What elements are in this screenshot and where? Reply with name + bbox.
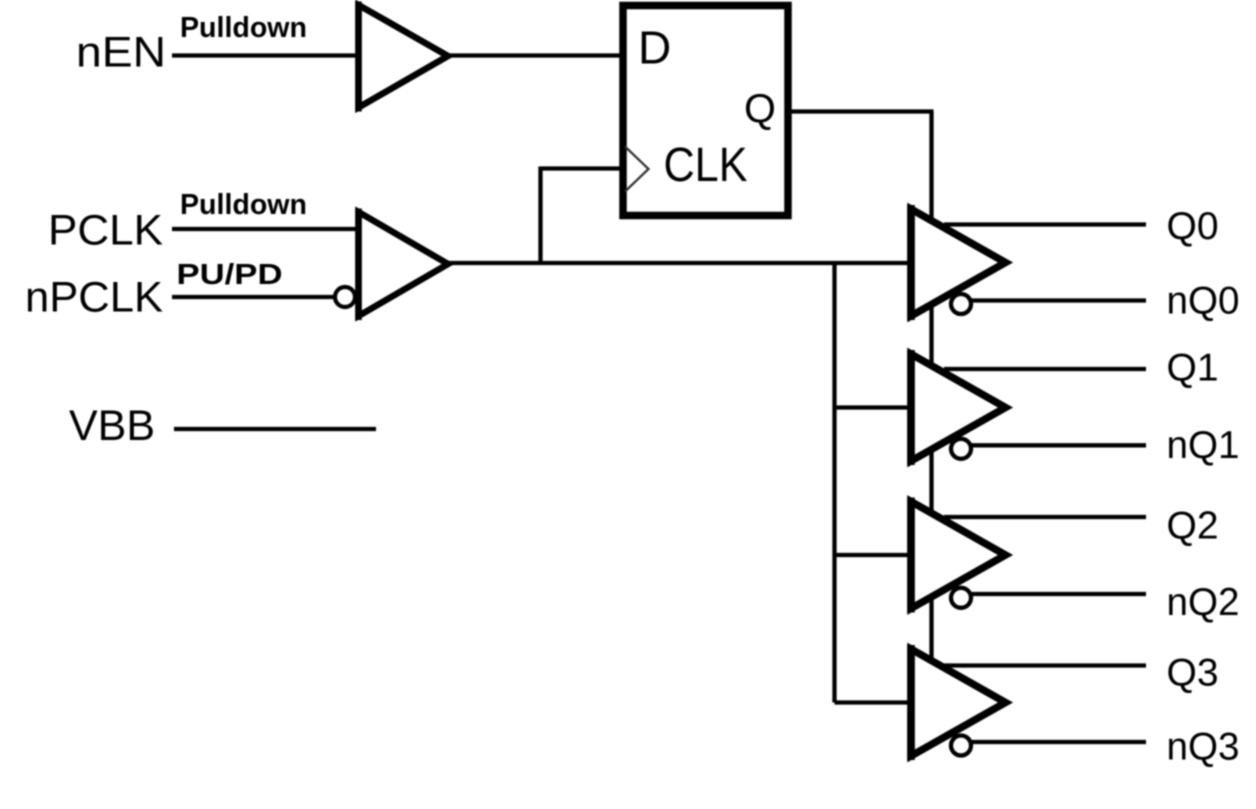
svg-text:Pulldown: Pulldown bbox=[180, 12, 307, 44]
svg-text:Q1: Q1 bbox=[1167, 347, 1219, 390]
clock edge chevron bbox=[625, 147, 649, 192]
buffer U2 left edge bbox=[355, 209, 362, 321]
wire CLK branch horizontal bbox=[541, 166, 624, 170]
svg-text:Q: Q bbox=[744, 86, 776, 132]
svg-text:nPCLK: nPCLK bbox=[25, 274, 163, 322]
wire nQ3 bbox=[962, 740, 1146, 744]
svg-text:nEN: nEN bbox=[76, 29, 166, 77]
wire nEN input bbox=[172, 53, 356, 57]
svg-text:PU/PD: PU/PD bbox=[177, 259, 283, 291]
output buffer B1 bbox=[911, 209, 1006, 316]
output buffer B3 bbox=[911, 502, 1006, 609]
wire nPCLK input bbox=[172, 295, 334, 299]
svg-text:Q2: Q2 bbox=[1167, 505, 1219, 548]
svg-text:nQ2: nQ2 bbox=[1167, 581, 1240, 624]
wire Q2 bbox=[944, 515, 1146, 519]
buffer B2 left edge bbox=[907, 350, 915, 465]
buffer B4 left edge bbox=[907, 645, 915, 760]
wire Q0 bbox=[944, 222, 1146, 226]
wire stub to buffer B4 bbox=[835, 700, 912, 704]
flip-flop U3 bbox=[623, 6, 788, 216]
buffer U1 left edge bbox=[355, 2, 362, 112]
inversion bubble nQ2 bbox=[951, 588, 971, 608]
buffer U1 output wire to D bbox=[448, 53, 624, 57]
wire stub to buffer B2 bbox=[835, 405, 912, 409]
buffer B1 left edge bbox=[907, 205, 915, 320]
output buffer B4 bbox=[911, 649, 1006, 756]
svg-text:nQ1: nQ1 bbox=[1167, 424, 1240, 467]
inversion bubble nQ1 bbox=[951, 439, 971, 459]
buffer B3 left edge bbox=[907, 498, 915, 613]
svg-text:D: D bbox=[638, 22, 671, 74]
inversion bubble nPCLK bbox=[335, 287, 355, 307]
wire PCLK input bbox=[172, 227, 356, 231]
wire stub to buffer B3 bbox=[835, 553, 912, 557]
wire nQ2 bbox=[962, 592, 1146, 596]
svg-text:nQ3: nQ3 bbox=[1167, 726, 1240, 769]
svg-text:Q3: Q3 bbox=[1167, 652, 1219, 695]
svg-text:VBB: VBB bbox=[69, 402, 155, 450]
wire input bus vertical bbox=[832, 263, 836, 703]
buffer U2 output wire (clock net) bbox=[448, 261, 909, 265]
svg-text:Pulldown: Pulldown bbox=[180, 189, 307, 221]
wire VBB bbox=[174, 427, 376, 431]
output buffer B2 bbox=[911, 354, 1006, 461]
wire Q output horizontal bbox=[789, 109, 934, 113]
buffer U2 (PCLK/nPCLK) bbox=[359, 212, 449, 316]
svg-text:PCLK: PCLK bbox=[48, 207, 163, 255]
inversion bubble nQ0 bbox=[951, 294, 971, 314]
wire Q output vertical bus bbox=[929, 112, 933, 666]
wire CLK branch vertical bbox=[538, 167, 542, 266]
wire Q1 bbox=[944, 367, 1146, 371]
svg-text:CLK: CLK bbox=[664, 139, 748, 192]
wire nQ1 bbox=[962, 443, 1146, 447]
svg-text:nQ0: nQ0 bbox=[1167, 280, 1240, 323]
buffer U1 bbox=[359, 5, 449, 108]
inversion bubble nQ3 bbox=[951, 736, 971, 756]
svg-text:Q0: Q0 bbox=[1167, 205, 1219, 248]
wire nQ0 bbox=[962, 298, 1146, 302]
wire Q3 bbox=[944, 663, 1146, 667]
